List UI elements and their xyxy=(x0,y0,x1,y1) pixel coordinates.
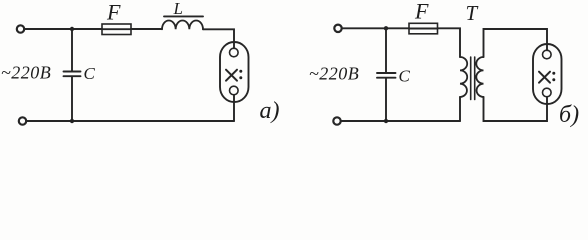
lamp EL1 bottom electrode circle xyxy=(230,86,239,95)
wire through fuse F1 xyxy=(102,28,131,30)
transformer T core bar left xyxy=(470,57,472,100)
inductor L coil xyxy=(162,20,203,29)
terminal top-right circuit xyxy=(334,25,341,32)
node junction top (capacitor tap) xyxy=(70,27,74,31)
transformer T secondary winding xyxy=(476,57,483,97)
capacitor C1 branch wire upper xyxy=(71,29,73,71)
lamp EL2 gas dot upper xyxy=(552,72,555,75)
lamp EL2 bottom electrode stem xyxy=(546,97,548,104)
terminal top-left xyxy=(17,25,24,32)
wire fuse to transformer primary xyxy=(438,28,461,57)
terminal bottom-right circuit xyxy=(333,117,340,124)
svg-text:~220В: ~220В xyxy=(1,63,51,83)
node junction top (capacitor tap right) xyxy=(384,26,388,30)
transformer T core bar right xyxy=(474,57,476,100)
svg-text:F: F xyxy=(414,0,429,24)
lamp EL2 bottom electrode circle xyxy=(543,88,552,97)
capacitor C1 plates xyxy=(64,72,81,77)
svg-text:L: L xyxy=(173,0,183,18)
wire bottom rail left xyxy=(26,120,234,122)
wire secondary top to lamp xyxy=(484,29,548,57)
svg-text:F: F xyxy=(106,0,121,25)
svg-text:C: C xyxy=(399,67,411,86)
lamp EL1 top electrode stem xyxy=(233,42,235,48)
lamp EL1 discharge cross xyxy=(226,70,237,81)
capacitor C2 branch wire upper xyxy=(385,28,387,73)
wire inductor to lamp top corner xyxy=(203,29,234,42)
svg-text:б): б) xyxy=(559,102,579,128)
lamp EL1 bulb outline xyxy=(220,42,249,102)
capacitor C2 plates xyxy=(377,73,396,78)
lamp EL1 gas dot lower xyxy=(239,76,242,79)
node junction bottom (capacitor tap right) xyxy=(384,119,388,123)
wire through fuse F2 xyxy=(409,28,438,30)
lamp EL1 gas dot upper xyxy=(239,70,242,73)
node junction bottom (capacitor tap) xyxy=(70,119,74,123)
wire top rail left segment xyxy=(24,28,102,30)
wire lamp bottom to rail xyxy=(233,102,235,121)
svg-text:T: T xyxy=(466,1,479,25)
lamp EL2 top electrode stem xyxy=(546,44,548,50)
wire secondary bottom loop to lamp xyxy=(484,97,548,121)
lamp EL1 top electrode circle xyxy=(230,48,239,57)
svg-text:C: C xyxy=(84,64,96,83)
wire bottom rail right circuit xyxy=(341,120,460,122)
lamp EL2 discharge cross xyxy=(539,72,550,83)
wire fuse to inductor xyxy=(131,28,162,30)
terminal bottom-left xyxy=(19,117,26,124)
transformer T primary winding xyxy=(460,57,467,97)
capacitor C1 branch wire lower xyxy=(71,76,73,121)
capacitor C2 branch wire lower xyxy=(385,78,387,121)
wire primary bottom to rail xyxy=(459,97,461,121)
wire top rail right circuit xyxy=(342,27,409,29)
inductor L core bar xyxy=(164,15,203,17)
fuse F1 xyxy=(102,24,131,35)
svg-text:а): а) xyxy=(260,98,280,124)
lamp EL2 gas dot lower xyxy=(552,78,555,81)
lamp EL2 top electrode circle xyxy=(543,50,552,59)
svg-text:~220В: ~220В xyxy=(309,64,359,84)
lamp EL2 bulb outline xyxy=(533,44,562,104)
fuse F2 xyxy=(409,23,438,34)
lamp EL1 bottom electrode stem xyxy=(233,95,235,102)
